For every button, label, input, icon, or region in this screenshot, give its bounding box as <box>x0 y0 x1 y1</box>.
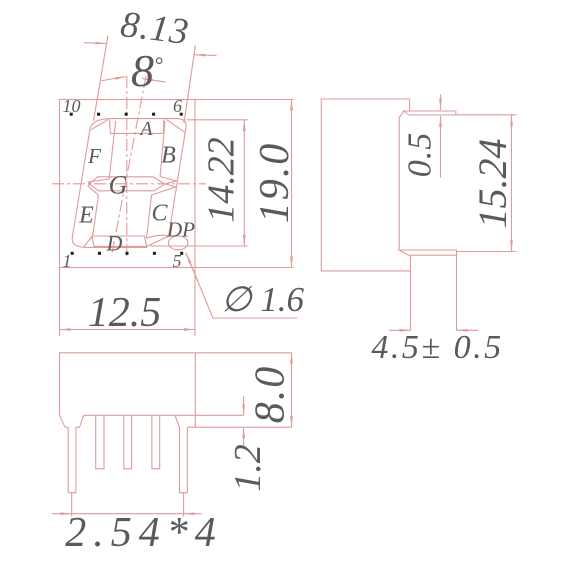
segment B inner edge and bottom wedge <box>147 121 177 238</box>
svg-text:8°: 8° <box>131 45 163 96</box>
8.13 left slant extension line <box>94 36 108 122</box>
pin 5 outline <box>180 427 188 493</box>
8 degree right arrow <box>142 78 166 82</box>
panel left bevel top <box>399 111 404 118</box>
dimension text 19.0 <box>252 142 298 224</box>
seven segment digit outer boundary <box>72 119 186 248</box>
8 degree left arrow <box>102 77 127 81</box>
14.22 bottom extension line <box>150 245 248 247</box>
svg-text:F: F <box>87 144 101 168</box>
pin column right edge <box>456 255 458 330</box>
svg-text:5: 5 <box>173 251 182 271</box>
svg-text:∅ 1.6: ∅ 1.6 <box>221 280 304 319</box>
dimension 0.5 lower arrow <box>440 116 442 178</box>
svg-text:14.22: 14.22 <box>201 137 243 223</box>
dimension line 19.0 <box>291 100 293 268</box>
side view body right edge top piece <box>409 99 411 111</box>
dimension text 0.5 <box>402 132 439 178</box>
svg-text:15.24: 15.24 <box>470 139 515 229</box>
15.24 top extension line <box>457 114 517 116</box>
dimension text 1.2 <box>227 444 269 492</box>
pin marker dots top row <box>70 113 184 255</box>
bottom view left bevel <box>60 415 66 427</box>
pin 1 shoulder line <box>65 426 68 428</box>
segment C bottom cut <box>147 235 169 238</box>
dimension line 12.5 <box>60 329 196 331</box>
svg-text:2.54*4: 2.54*4 <box>65 510 223 556</box>
dimension line 2.54*4 span <box>72 513 184 515</box>
svg-text:G: G <box>109 171 128 200</box>
dimension 8.13 left arrow segment <box>84 42 107 45</box>
12.5 left extension line <box>59 268 61 337</box>
19.0 top extension line <box>195 99 294 101</box>
svg-text:10: 10 <box>63 96 81 116</box>
side view body outline <box>321 99 410 271</box>
vertical centerline <box>126 76 128 259</box>
svg-text:E: E <box>78 203 94 229</box>
bottom view body outline <box>60 353 293 416</box>
pin 1 tip extension line <box>71 493 73 517</box>
front view body outline <box>60 100 196 268</box>
segment E bottom cut <box>84 237 92 248</box>
svg-text:1.2: 1.2 <box>227 444 269 492</box>
dimension 1.2 upper arrow <box>243 396 245 415</box>
top-left corner diagonal <box>91 119 108 129</box>
display panel top bar <box>404 111 456 115</box>
pin column left edge <box>410 255 412 330</box>
svg-text:6: 6 <box>173 96 182 116</box>
shoulder extension line to 8.0 dim <box>187 426 292 428</box>
dimension line 14.22 <box>243 120 245 246</box>
8.13 right slant extension line <box>184 46 195 124</box>
slanted digit axis centerline <box>112 76 147 256</box>
svg-text:B: B <box>161 143 176 169</box>
svg-text:A: A <box>138 118 153 140</box>
panel left edge <box>398 118 400 251</box>
dimension 0.5 upper arrow <box>440 95 442 111</box>
segment F inner edge and bottom wedge <box>88 121 116 238</box>
pin 1 outline <box>68 427 76 493</box>
dimension line 2.54*4 right arrow <box>184 513 202 515</box>
body bottom edge <box>84 414 244 416</box>
svg-text:8.13: 8.13 <box>118 4 191 53</box>
15.24 bottom extension line <box>457 251 517 253</box>
horizontal centerline <box>52 183 206 185</box>
svg-text:8.0: 8.0 <box>248 365 294 424</box>
dimension line 8.0 <box>291 353 293 427</box>
pin 1 right shoulder <box>76 415 84 427</box>
svg-text:1: 1 <box>63 251 72 271</box>
pin 4 outline <box>152 415 160 469</box>
dimension 8.13 right arrow segment <box>194 54 217 57</box>
19.0 bottom extension line <box>195 267 294 269</box>
dimension text 14.22 <box>201 137 243 223</box>
top-right corner diagonal <box>166 119 184 132</box>
svg-text:0.5: 0.5 <box>402 132 439 178</box>
dimension 1.2 lower arrow <box>243 427 245 447</box>
diameter 1.6 leader line <box>186 253 297 318</box>
panel bottom bar <box>399 250 456 255</box>
segment G hexagon <box>89 177 164 191</box>
pin 2 outline <box>96 415 104 469</box>
DP circle <box>168 236 188 250</box>
bottom view internal vertical line <box>194 353 196 427</box>
svg-text:D: D <box>106 231 123 256</box>
pin marker dots bottom row <box>71 252 74 255</box>
14.22 top extension line <box>187 119 248 121</box>
pin 5 left bevel <box>175 415 180 427</box>
dimension 4.5 right arrow <box>457 329 479 331</box>
dimension line 15.24 <box>511 115 513 252</box>
dimension line 2.54*4 left arrow <box>52 513 72 515</box>
12.5 right extension line <box>194 268 196 337</box>
svg-text:C: C <box>151 201 168 227</box>
dimension text 15.24 <box>470 139 515 229</box>
segment A box <box>110 120 164 134</box>
svg-text:DP: DP <box>166 218 195 242</box>
dimension text 8.0 <box>248 365 294 424</box>
pin 5 tip extension line <box>183 493 185 517</box>
svg-text:4.5± 0.5: 4.5± 0.5 <box>371 329 503 366</box>
dimension 4.5 left arrow <box>389 329 411 331</box>
svg-text:19.0: 19.0 <box>252 142 298 224</box>
segment D box <box>92 236 147 246</box>
pin 3 outline <box>124 415 132 469</box>
svg-text:12.5: 12.5 <box>88 290 162 336</box>
